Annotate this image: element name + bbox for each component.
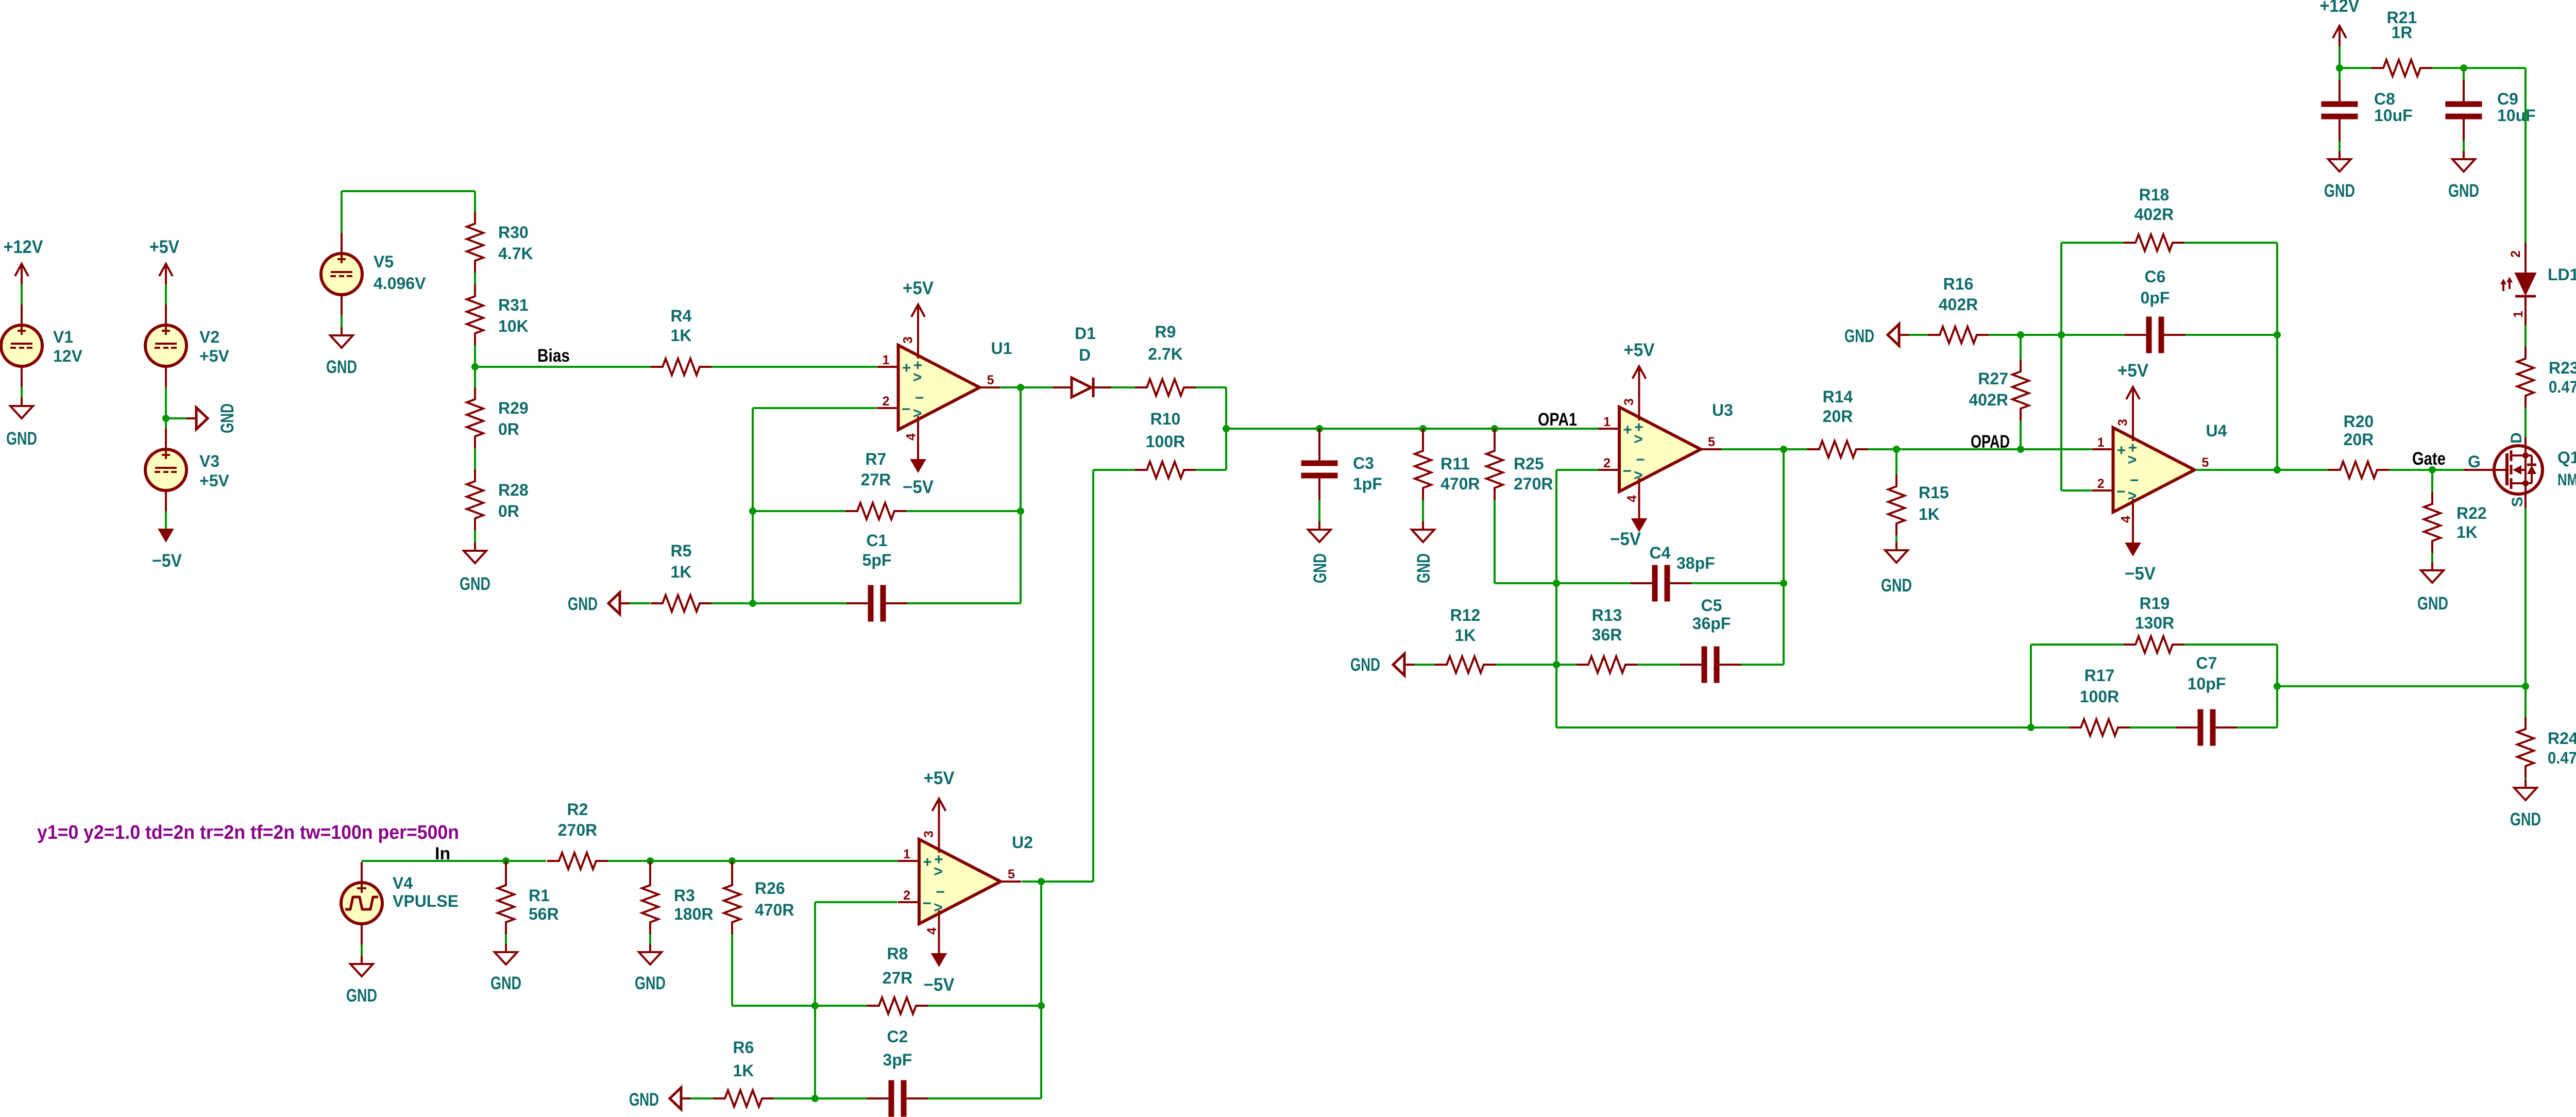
svg-text:12V: 12V — [53, 347, 83, 365]
svg-text:R19: R19 — [2140, 594, 2170, 613]
svg-text:U3: U3 — [1712, 401, 1733, 419]
svg-text:2: 2 — [903, 888, 910, 903]
svg-text:R20: R20 — [2344, 412, 2374, 431]
svg-text:>: > — [1634, 431, 1643, 448]
svg-text:>: > — [913, 369, 922, 386]
svg-text:0pF: 0pF — [2141, 289, 2170, 307]
svg-text:+12V: +12V — [2320, 0, 2360, 16]
svg-text:S: S — [2509, 497, 2526, 507]
svg-text:5: 5 — [987, 373, 994, 387]
svg-text:C7: C7 — [2196, 654, 2217, 672]
svg-text:R11: R11 — [1440, 454, 1470, 473]
svg-text:20R: 20R — [2344, 430, 2374, 449]
svg-text:GND: GND — [217, 403, 238, 433]
svg-text:D: D — [1079, 346, 1091, 364]
svg-text:GND: GND — [460, 574, 490, 594]
svg-text:1: 1 — [903, 847, 910, 861]
svg-text:100R: 100R — [2080, 687, 2120, 706]
svg-text:2: 2 — [883, 394, 890, 409]
svg-text:R29: R29 — [498, 399, 529, 417]
svg-text:R23: R23 — [2549, 359, 2576, 377]
svg-text:−5V: −5V — [1610, 529, 1641, 549]
svg-text:Gate: Gate — [2412, 449, 2446, 469]
svg-text:D1: D1 — [1075, 324, 1096, 343]
svg-text:0.47R: 0.47R — [2548, 749, 2576, 767]
svg-text:R22: R22 — [2456, 504, 2487, 522]
svg-text:+: + — [902, 360, 911, 377]
svg-text:GND: GND — [568, 594, 598, 614]
svg-text:−: − — [2130, 472, 2139, 489]
svg-text:>: > — [934, 899, 943, 916]
svg-text:100R: 100R — [1146, 432, 1185, 451]
svg-text:56R: 56R — [529, 905, 559, 923]
svg-text:R17: R17 — [2084, 666, 2115, 685]
svg-text:−5V: −5V — [903, 477, 934, 497]
svg-text:−: − — [902, 401, 911, 418]
svg-text:3: 3 — [1622, 398, 1636, 405]
svg-text:U1: U1 — [991, 339, 1012, 358]
svg-text:R25: R25 — [1514, 454, 1544, 473]
svg-text:C9: C9 — [2497, 90, 2518, 108]
svg-text:1K: 1K — [1919, 505, 1940, 523]
svg-text:GND: GND — [6, 429, 37, 449]
svg-text:−: − — [922, 895, 931, 912]
svg-text:−5V: −5V — [2125, 564, 2156, 584]
svg-text:GND: GND — [2448, 181, 2479, 201]
svg-text:1K: 1K — [671, 563, 692, 581]
svg-text:3: 3 — [901, 336, 916, 344]
svg-text:−: − — [915, 390, 924, 407]
svg-text:4: 4 — [1625, 495, 1639, 502]
svg-text:R27: R27 — [1978, 369, 2008, 388]
svg-text:+5V: +5V — [199, 471, 229, 490]
svg-text:38pF: 38pF — [1676, 554, 1715, 572]
svg-text:4: 4 — [925, 927, 939, 935]
svg-text:VPULSE: VPULSE — [393, 892, 459, 910]
svg-text:270R: 270R — [558, 821, 598, 839]
svg-text:R9: R9 — [1155, 323, 1176, 341]
svg-text:3: 3 — [922, 831, 936, 838]
svg-text:OPA1: OPA1 — [1538, 410, 1577, 430]
svg-text:10uF: 10uF — [2374, 106, 2413, 125]
svg-text:1K: 1K — [1455, 626, 1476, 645]
svg-text:GND: GND — [1310, 553, 1330, 583]
svg-text:−: − — [936, 884, 945, 901]
svg-text:GND: GND — [635, 973, 666, 993]
svg-text:GND: GND — [2510, 809, 2541, 830]
svg-text:R24: R24 — [2548, 729, 2576, 748]
svg-text:2: 2 — [1603, 456, 1611, 470]
svg-text:5: 5 — [1008, 867, 1015, 882]
svg-text:>: > — [934, 863, 943, 880]
svg-text:270R: 270R — [1514, 475, 1553, 493]
svg-text:36pF: 36pF — [1692, 614, 1731, 633]
svg-text:GND: GND — [2417, 594, 2448, 614]
svg-text:R13: R13 — [1592, 606, 1622, 624]
svg-text:+: + — [1623, 421, 1632, 438]
svg-text:>: > — [1634, 467, 1643, 484]
svg-text:+5V: +5V — [1624, 340, 1655, 360]
svg-text:3pF: 3pF — [883, 1051, 912, 1069]
svg-text:R5: R5 — [671, 541, 692, 560]
svg-text:−: − — [2116, 483, 2126, 500]
svg-text:1K: 1K — [2456, 523, 2478, 541]
svg-text:0R: 0R — [498, 502, 519, 520]
svg-text:GND: GND — [1844, 326, 1874, 346]
svg-text:+5V: +5V — [903, 278, 934, 298]
svg-text:+5V: +5V — [2117, 361, 2149, 381]
svg-text:R30: R30 — [498, 223, 529, 242]
svg-text:C5: C5 — [1701, 596, 1722, 615]
svg-text:R4: R4 — [671, 307, 692, 325]
svg-text:1: 1 — [1603, 415, 1611, 429]
svg-text:V5: V5 — [374, 252, 394, 271]
svg-text:C2: C2 — [887, 1027, 908, 1046]
svg-text:GND: GND — [1350, 655, 1380, 675]
svg-text:R12: R12 — [1450, 606, 1481, 624]
svg-text:C1: C1 — [867, 531, 888, 550]
svg-text:y1=0 y2=1.0 td=2n tr=2n tf=2n: y1=0 y2=1.0 td=2n tr=2n tf=2n tw=100n pe… — [37, 822, 459, 843]
svg-text:R10: R10 — [1150, 410, 1181, 428]
svg-text:C4: C4 — [1650, 544, 1671, 562]
svg-text:V4: V4 — [393, 874, 413, 892]
svg-text:GND: GND — [629, 1090, 659, 1110]
svg-text:1R: 1R — [2392, 23, 2413, 42]
svg-text:G: G — [2468, 452, 2481, 471]
svg-text:0.47R: 0.47R — [2549, 378, 2576, 396]
svg-text:5: 5 — [2202, 455, 2209, 470]
svg-text:4: 4 — [2119, 516, 2133, 523]
svg-text:+5V: +5V — [199, 347, 229, 365]
svg-text:R1: R1 — [529, 886, 550, 905]
svg-text:402R: 402R — [2134, 205, 2174, 224]
svg-text:1: 1 — [2097, 435, 2105, 450]
svg-text:2: 2 — [2097, 477, 2105, 491]
svg-text:GND: GND — [1414, 553, 1434, 583]
svg-text:V2: V2 — [199, 328, 219, 346]
svg-text:1pF: 1pF — [1353, 475, 1382, 493]
svg-text:+: + — [923, 854, 932, 871]
svg-text:1K: 1K — [733, 1061, 754, 1080]
svg-text:36R: 36R — [1592, 625, 1622, 644]
svg-text:R18: R18 — [2139, 185, 2170, 204]
svg-text:C8: C8 — [2374, 90, 2395, 108]
svg-text:U4: U4 — [2206, 421, 2227, 440]
svg-text:R7: R7 — [866, 450, 887, 468]
svg-text:3: 3 — [2116, 419, 2130, 426]
svg-text:+5V: +5V — [149, 237, 180, 257]
svg-text:2.7K: 2.7K — [1148, 345, 1183, 363]
svg-text:20R: 20R — [1823, 407, 1853, 426]
svg-text:GND: GND — [490, 973, 521, 993]
svg-text:180R: 180R — [674, 905, 714, 923]
svg-text:10uF: 10uF — [2497, 106, 2536, 125]
svg-text:NMOS: NMOS — [2557, 470, 2576, 489]
svg-text:0R: 0R — [498, 420, 519, 438]
svg-text:Bias: Bias — [537, 346, 570, 366]
svg-text:R8: R8 — [887, 944, 908, 963]
svg-text:27R: 27R — [883, 969, 913, 987]
svg-text:GND: GND — [326, 357, 357, 377]
svg-text:LD1: LD1 — [2548, 265, 2576, 284]
svg-text:>: > — [2128, 451, 2137, 468]
svg-text:R16: R16 — [1943, 275, 1974, 293]
svg-text:−5V: −5V — [152, 551, 182, 571]
svg-text:+5V: +5V — [924, 768, 955, 788]
svg-text:470R: 470R — [1440, 475, 1480, 493]
svg-text:V3: V3 — [199, 452, 219, 470]
svg-text:OPAD: OPAD — [1971, 432, 2010, 452]
svg-text:R3: R3 — [674, 886, 695, 905]
svg-text:10pF: 10pF — [2188, 674, 2226, 693]
svg-text:V1: V1 — [53, 328, 73, 346]
svg-text:+12V: +12V — [4, 237, 44, 257]
svg-text:4.7K: 4.7K — [498, 244, 533, 263]
svg-text:10K: 10K — [498, 317, 529, 335]
svg-text:2: 2 — [2509, 250, 2523, 258]
svg-text:402R: 402R — [1939, 295, 1978, 314]
svg-text:GND: GND — [2324, 181, 2355, 201]
svg-text:GND: GND — [346, 986, 377, 1006]
svg-text:>: > — [913, 405, 922, 422]
svg-text:R2: R2 — [567, 800, 588, 819]
svg-text:4.096V: 4.096V — [374, 274, 426, 293]
svg-text:27R: 27R — [861, 470, 891, 489]
svg-text:1: 1 — [2511, 311, 2526, 318]
svg-text:−: − — [1636, 451, 1645, 468]
svg-text:D: D — [2508, 432, 2525, 444]
svg-text:402R: 402R — [1969, 391, 2009, 409]
svg-text:1K: 1K — [671, 326, 692, 345]
svg-text:R15: R15 — [1919, 483, 1949, 502]
svg-text:R31: R31 — [498, 296, 529, 314]
svg-text:470R: 470R — [755, 901, 794, 919]
svg-text:R14: R14 — [1823, 387, 1853, 406]
svg-text:5: 5 — [1708, 435, 1715, 449]
svg-text:R26: R26 — [755, 879, 785, 898]
svg-text:C6: C6 — [2145, 267, 2166, 286]
svg-text:GND: GND — [1881, 576, 1912, 596]
svg-text:>: > — [2128, 487, 2137, 504]
svg-text:4: 4 — [904, 433, 919, 441]
svg-text:5pF: 5pF — [862, 551, 892, 569]
svg-text:C3: C3 — [1353, 454, 1374, 472]
svg-text:+: + — [2117, 442, 2126, 459]
svg-text:−5V: −5V — [924, 975, 955, 995]
svg-text:R28: R28 — [498, 481, 529, 499]
svg-text:−: − — [1622, 463, 1632, 480]
svg-text:Q1: Q1 — [2557, 448, 2576, 467]
svg-text:R6: R6 — [733, 1038, 754, 1057]
svg-text:U2: U2 — [1012, 833, 1033, 852]
svg-text:1: 1 — [883, 353, 890, 367]
svg-text:130R: 130R — [2135, 614, 2175, 632]
